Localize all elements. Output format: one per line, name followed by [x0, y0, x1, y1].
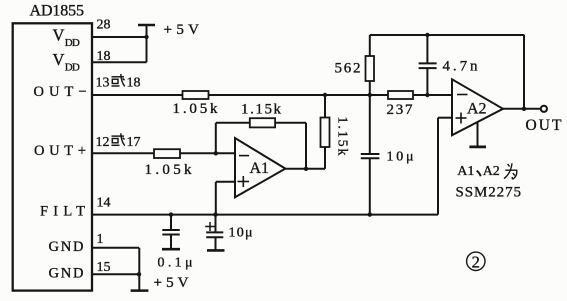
svg-text:V: V: [53, 50, 65, 69]
svg-text:FILT: FILT: [40, 204, 85, 220]
svg-text:+5V: +5V: [154, 275, 189, 291]
svg-text:0.1μ: 0.1μ: [158, 256, 193, 271]
svg-text:A2: A2: [467, 101, 487, 118]
svg-text:A1: A1: [250, 160, 270, 177]
svg-text:1.15k: 1.15k: [241, 102, 282, 118]
svg-text:13: 13: [96, 76, 110, 91]
svg-text:V: V: [53, 26, 65, 45]
svg-text:17: 17: [127, 135, 141, 150]
svg-text:15: 15: [97, 260, 111, 275]
svg-text:SSM2275: SSM2275: [456, 185, 522, 201]
svg-text:1.15k: 1.15k: [335, 117, 350, 156]
svg-text:237: 237: [387, 102, 414, 118]
svg-text:12: 12: [96, 135, 110, 150]
svg-text:562: 562: [335, 61, 361, 77]
svg-text:A1: A1: [457, 164, 474, 179]
svg-text:1.05k: 1.05k: [145, 162, 193, 178]
svg-text:4.7n: 4.7n: [443, 59, 479, 75]
svg-text:1.05k: 1.05k: [173, 101, 219, 117]
svg-text:10μ: 10μ: [229, 226, 253, 241]
svg-text:18: 18: [127, 76, 141, 91]
svg-text:AD1855: AD1855: [30, 3, 85, 20]
svg-text:DD: DD: [65, 37, 80, 49]
svg-text:GND: GND: [49, 239, 84, 255]
svg-text:2: 2: [472, 252, 480, 271]
svg-text:10μ: 10μ: [387, 149, 414, 164]
svg-text:+5V: +5V: [164, 22, 200, 38]
svg-text:GND: GND: [49, 265, 84, 281]
svg-text:OUT: OUT: [526, 117, 563, 134]
svg-text:1: 1: [97, 232, 104, 247]
svg-text:28: 28: [97, 18, 111, 33]
svg-text:A2: A2: [483, 164, 500, 179]
svg-text:14: 14: [97, 196, 111, 211]
svg-text:DD: DD: [65, 62, 80, 74]
svg-text:18: 18: [97, 49, 111, 64]
